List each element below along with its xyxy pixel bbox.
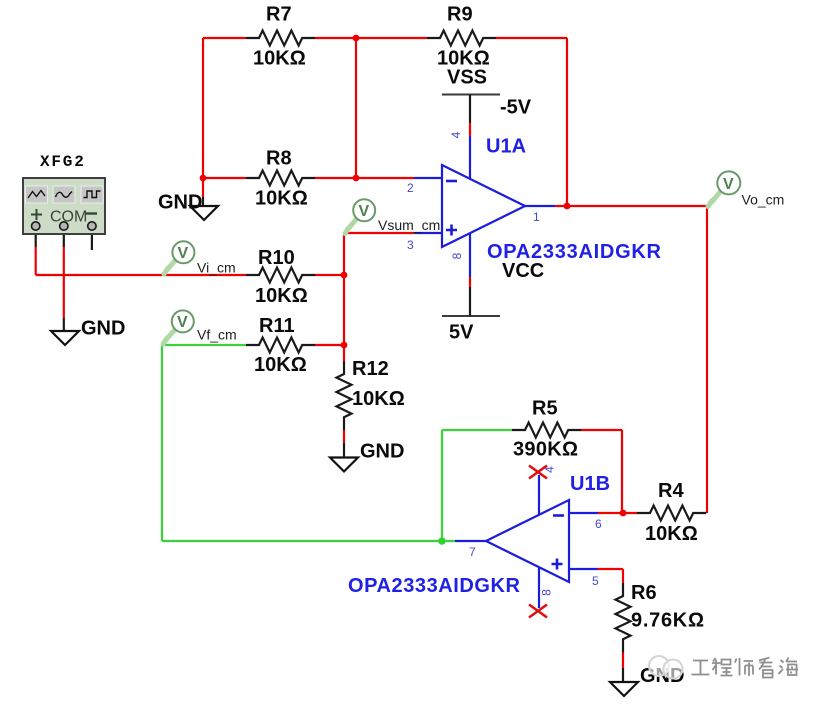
XFG2 body	[23, 178, 105, 234]
wire Vsum vertical	[343, 233, 345, 275]
wire R10 right to node	[315, 274, 344, 276]
wire XFG com red down	[63, 247, 65, 318]
op-amp U1B minus mark	[553, 514, 564, 517]
resistor R10	[246, 268, 315, 283]
wire XFG plus red down	[35, 247, 37, 275]
op-amp U1B body	[486, 500, 569, 582]
watermark logo	[649, 656, 669, 676]
svg-text:2: 2	[407, 181, 414, 195]
svg-text:V: V	[178, 245, 189, 262]
op-amp U1B plus mark	[552, 559, 563, 570]
XFG2 button sine-wave	[53, 186, 75, 203]
probe Vf_cm	[163, 310, 237, 344]
ground under XFG2 COM	[51, 318, 125, 346]
no-connect X on U1B pin8	[529, 605, 547, 618]
wire green R5 left	[442, 429, 512, 431]
svg-text:U1A: U1A	[486, 136, 526, 158]
wire top net left segment (R7 left to left vertical)	[203, 37, 246, 39]
wire pin5 red	[598, 568, 623, 570]
resistor R4	[637, 506, 706, 521]
svg-text:5: 5	[592, 574, 599, 588]
svg-text:XFG2: XFG2	[40, 153, 86, 171]
no-connect X on U1B pin4	[529, 466, 547, 479]
svg-text:7: 7	[469, 545, 476, 559]
XFG2 button triangle-wave	[26, 186, 48, 203]
wire Vi_cm horizontal	[36, 274, 246, 276]
wire green R11 left	[162, 344, 246, 346]
svg-text:V: V	[723, 176, 734, 193]
wire green left vertical	[161, 345, 163, 541]
wire U1B pin8 blue	[538, 568, 540, 608]
svg-text:GND: GND	[158, 192, 202, 214]
wire R11 right to node	[315, 344, 344, 346]
svg-text:1: 1	[533, 210, 540, 224]
XFG2 terminal COM	[60, 222, 68, 230]
svg-text:10KΩ: 10KΩ	[255, 188, 308, 210]
resistor R7	[246, 31, 315, 46]
function generator XFG2	[23, 153, 105, 234]
svg-text:8: 8	[450, 252, 464, 259]
wire output horizontal	[555, 205, 707, 207]
svg-text:R9: R9	[447, 4, 473, 26]
resistor R8	[246, 171, 315, 186]
svg-text:OPA2333AIDGKR: OPA2333AIDGKR	[487, 241, 662, 263]
svg-text:4: 4	[543, 466, 557, 473]
svg-text:9.76KΩ: 9.76KΩ	[631, 610, 704, 632]
wire R6 bottom red segment	[622, 652, 624, 668]
resistor R12 (vertical)	[337, 361, 352, 430]
svg-text:5V: 5V	[449, 322, 474, 344]
wire right vertical down to output node	[566, 38, 568, 206]
resistor R9	[427, 31, 496, 46]
wire U1A pin4 black	[469, 95, 471, 124]
wire U1B pin4 blue	[538, 475, 540, 515]
wire XFG minus stub	[91, 228, 93, 250]
watermark text 工程师看海	[692, 658, 799, 678]
svg-text:6: 6	[595, 517, 602, 531]
svg-text:R8: R8	[266, 148, 292, 170]
wire node R11 to R12 top	[343, 345, 345, 361]
pin 5 stub	[569, 568, 598, 570]
node R8 junction	[353, 175, 360, 182]
svg-text:R5: R5	[532, 398, 558, 420]
pin 2 stub	[414, 177, 442, 179]
svg-text:10KΩ: 10KΩ	[253, 48, 306, 70]
resistor R6 (vertical)	[616, 583, 631, 652]
wire U1A pin8 blue	[469, 233, 471, 277]
svg-text:8: 8	[540, 589, 554, 596]
svg-text:U1B: U1B	[570, 473, 610, 495]
svg-text:3: 3	[407, 238, 414, 252]
resistor R5	[512, 423, 581, 438]
ground under R12	[330, 441, 404, 472]
svg-text:-5V: -5V	[500, 97, 532, 119]
wire mid vertical node T to R8 node	[355, 38, 357, 178]
node green feedback junction	[438, 537, 446, 545]
node T (R7/R9 junction)	[353, 35, 360, 42]
svg-text:10KΩ: 10KΩ	[645, 523, 698, 545]
wire R8 gnd stub black	[202, 197, 204, 206]
svg-text:4: 4	[449, 131, 463, 138]
svg-text:R12: R12	[352, 358, 389, 380]
probe Vo_cm	[708, 171, 784, 207]
pin 7 stub	[455, 540, 486, 542]
wire U1A pin8 black	[469, 287, 471, 316]
node GND-R8 junction	[200, 175, 207, 182]
op-amp U1A body	[442, 165, 525, 247]
XFG2 plus terminal label	[31, 209, 42, 220]
ground under R6	[610, 665, 684, 696]
wire green R5 vertical	[441, 430, 443, 541]
VSS rail	[442, 67, 532, 119]
XFG2 button square-wave	[81, 186, 103, 203]
wire R5 right vertical down to pin6 node	[621, 430, 623, 513]
svg-text:Vsum_cm: Vsum_cm	[378, 217, 440, 233]
XFG2 terminal +	[32, 222, 40, 230]
svg-text:Vi_cm: Vi_cm	[197, 260, 236, 276]
svg-text:10KΩ: 10KΩ	[254, 354, 307, 376]
wire R4 right corner vertical	[706, 206, 708, 513]
probe Vsum_cm	[345, 199, 440, 233]
svg-text:Vf_cm: Vf_cm	[197, 327, 237, 343]
wire green bottom horizontal	[162, 540, 455, 542]
wire R12 bottom red segment	[343, 430, 345, 443]
probe Vi_cm	[164, 241, 236, 275]
svg-text:GND: GND	[360, 441, 404, 463]
node pin6 junction	[620, 510, 627, 517]
wire pin6 red	[598, 512, 637, 514]
wire XFG plus terminal black	[35, 228, 37, 247]
svg-text:R6: R6	[631, 582, 657, 604]
wire R6 gnd black segment	[622, 668, 624, 682]
wire Vsum corner to pin3	[344, 232, 414, 234]
node R11/R12 junction	[341, 342, 348, 349]
wire R7 right to node T	[315, 37, 356, 39]
svg-text:R4: R4	[658, 480, 684, 502]
wire U1A pin8 red segment	[469, 277, 471, 287]
wire R8 left	[203, 177, 246, 179]
svg-text:VCC: VCC	[502, 260, 544, 282]
wire U1A pin4 red segment	[469, 123, 471, 136]
svg-text:OPA2333AIDGKR: OPA2333AIDGKR	[348, 575, 521, 597]
svg-text:R10: R10	[258, 247, 295, 269]
svg-text:R7: R7	[266, 4, 292, 26]
wire XFG com gnd stub	[63, 318, 65, 331]
wire R8 right to pin2	[315, 177, 414, 179]
wire R12 gnd black segment	[343, 443, 345, 458]
svg-text:V: V	[177, 314, 188, 331]
pin 3 stub	[414, 232, 442, 234]
svg-text:10KΩ: 10KΩ	[255, 285, 308, 307]
svg-text:GND: GND	[81, 318, 125, 340]
svg-text:V: V	[359, 203, 370, 220]
op-amp U1A minus mark	[446, 180, 457, 183]
svg-text:10KΩ: 10KΩ	[352, 388, 405, 410]
svg-text:VSS: VSS	[447, 67, 487, 89]
node U1A output junction	[564, 203, 571, 210]
wire node T to R9 left	[356, 37, 427, 39]
pin 6 stub	[569, 512, 598, 514]
wire R8 gnd stub red	[202, 178, 204, 197]
svg-text:R11: R11	[259, 315, 295, 337]
ground near R8	[158, 192, 218, 221]
wire left vertical R7-R8	[202, 38, 204, 178]
svg-text:COM: COM	[50, 209, 87, 226]
op-amp U1A plus mark	[446, 225, 457, 236]
node R10 junction	[341, 272, 348, 279]
resistor R11	[246, 338, 315, 353]
wire pin5 corner down to R6	[622, 569, 624, 583]
pin 1 stub	[525, 205, 555, 207]
wire R5 right red	[581, 429, 622, 431]
svg-text:390KΩ: 390KΩ	[513, 439, 578, 461]
wire XFG com terminal black	[63, 228, 65, 247]
wire node R10 down to node R11	[343, 275, 345, 345]
wire R9 right to top-right corner	[496, 37, 567, 39]
wire U1A pin4 blue	[469, 136, 471, 179]
VCC rail	[442, 260, 544, 344]
svg-text:Vo_cm: Vo_cm	[742, 192, 785, 208]
XFG2 terminal -	[88, 222, 96, 230]
XFG2 minus terminal label	[86, 212, 97, 214]
